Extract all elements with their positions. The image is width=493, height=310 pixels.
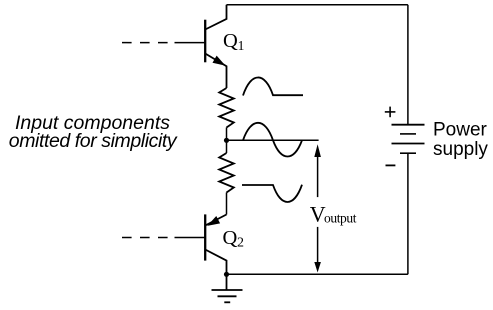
transistor Q2 emitter lead <box>205 215 226 226</box>
Voutput arrow upper (points up at output line) <box>314 144 321 157</box>
node output junction dot <box>224 138 229 143</box>
wire between resistors through output node <box>226 128 228 154</box>
battery short plate <box>400 133 416 135</box>
transistor Q1 emitter lead <box>205 54 226 89</box>
wire mid output line <box>227 139 319 141</box>
transistor Q1 emitter arrow <box>213 56 224 65</box>
svg-text:Power: Power <box>433 120 488 141</box>
svg-text:2: 2 <box>237 235 244 250</box>
waveform middle (full sine at output node) <box>243 123 302 157</box>
svg-text:supply: supply <box>433 139 488 160</box>
battery short plate (-) <box>400 152 416 154</box>
svg-text:1: 1 <box>238 38 245 53</box>
wire right rail upper (to battery + plate) <box>407 5 409 125</box>
waveform bottom (negative half-cycle at Q2 side) <box>242 185 302 202</box>
wire top rail from Q1 collector to power supply <box>227 4 408 6</box>
transistor Q2 base bar <box>204 214 206 260</box>
resistor (upper, between Q1 emitter and output node) <box>219 88 234 128</box>
transistor Q2 emitter arrow <box>208 217 219 226</box>
label + (battery positive) <box>385 107 396 118</box>
Voutput arrow lower (points down at bottom rail) <box>317 227 319 264</box>
battery long plate <box>392 143 425 145</box>
resistor (lower, between output node and Q2 emitter) <box>219 153 234 193</box>
label - (battery negative) <box>386 164 396 166</box>
wire right rail lower (battery - to bottom rail) <box>407 153 409 274</box>
transistor Q1 base bar <box>204 20 206 63</box>
transistor Q2 collector lead <box>205 250 226 275</box>
svg-text:output: output <box>324 210 357 225</box>
wire bottom rail <box>227 273 408 275</box>
node bottom junction dot <box>224 272 229 277</box>
waveform top (positive half-cycle at Q1 side) <box>243 77 303 95</box>
transistor Q1 collector lead <box>205 5 226 30</box>
wire Q2 base lead solid <box>175 237 205 239</box>
wire Q1 base lead solid <box>175 42 205 44</box>
svg-text:omitted for simplicity: omitted for simplicity <box>9 130 178 152</box>
wire Q1 base lead dashed <box>122 42 168 44</box>
wire Q2 base lead dashed <box>122 237 168 239</box>
battery power supply: long plate (+) <box>392 124 425 126</box>
ground <box>212 274 243 302</box>
wire resistor to Q2 emitter <box>226 193 228 215</box>
svg-text:Q: Q <box>223 30 238 52</box>
svg-text:Q: Q <box>223 227 238 249</box>
